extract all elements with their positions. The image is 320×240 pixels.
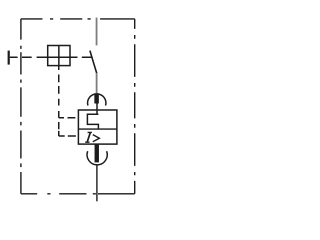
release box divider [78,128,117,130]
linkage branch to magnetic release (elbow) [59,135,76,137]
plug pin lower (thick bar) [95,144,99,162]
enclosure border top (dash-dot) [21,18,135,20]
thermal overload release step line [87,114,98,129]
magnetic release label greater-than [93,135,100,142]
wire from upper plug into release box [96,103,98,114]
plug-socket lower arc [87,151,107,165]
vertical dashed linkage continues [58,122,60,136]
linkage branch to thermal release (T junction) [59,117,76,119]
terminal T1 (left connection bar) [8,51,10,65]
enclosure border right (dash-dot) [134,19,136,194]
operating mechanism square (actuator) [48,46,70,66]
plug-socket upper arc [88,94,106,106]
plug pin upper (thick bar) [94,93,99,103]
enclosure border left (dash-dot) [20,19,22,194]
wire from blade to upper plug [96,73,98,94]
bottom conductor wire [96,165,98,202]
vertical dashed linkage from actuator [58,66,60,118]
mechanical linkage horizontal dashed wire [10,56,93,58]
switch blade (breaker contact) [90,51,97,74]
release box outline U1 [78,110,117,144]
enclosure border bottom (dash-dot) [21,193,135,195]
magnetic release label I [85,132,92,142]
upper fixed contact wire [96,18,98,46]
